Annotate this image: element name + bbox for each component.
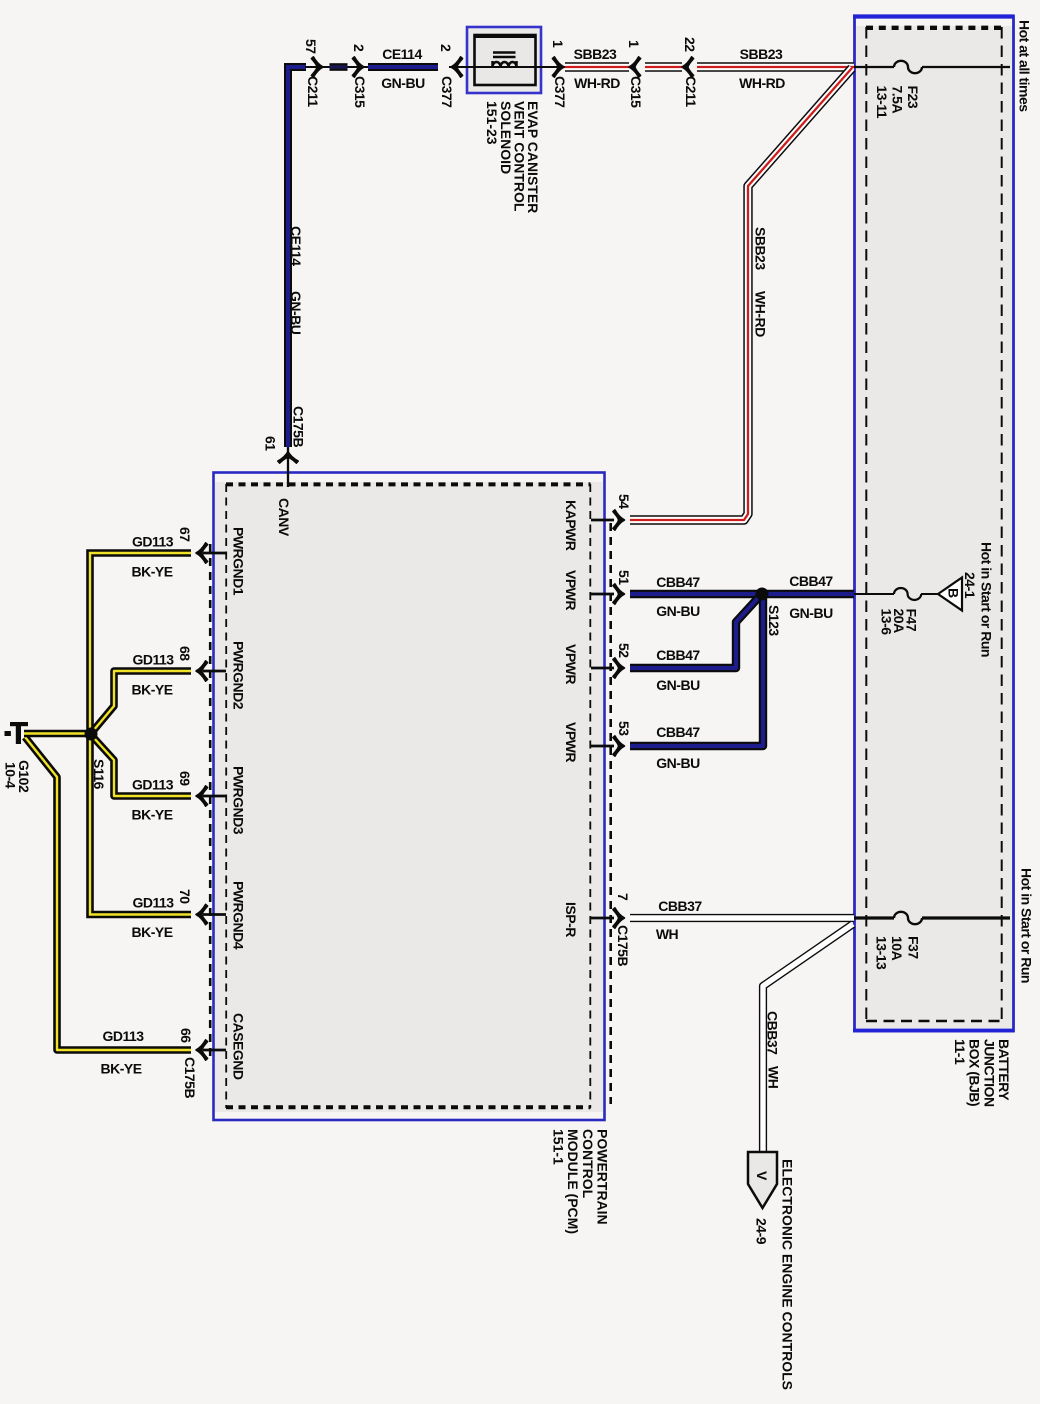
label VPWR / 52 <box>563 643 632 684</box>
svg-text:WH: WH <box>656 926 679 942</box>
PCM pin CANV 61: stub and arrow <box>278 447 298 487</box>
svg-text:MODULE (PCM): MODULE (PCM) <box>565 1129 581 1234</box>
svg-text:VPWR: VPWR <box>563 570 579 610</box>
svg-text:SBB23: SBB23 <box>753 227 769 270</box>
svg-text:C315: C315 <box>628 76 644 108</box>
svg-text:54: 54 <box>616 494 632 509</box>
label F47 20A 13-6 <box>879 609 920 636</box>
svg-text:10A: 10A <box>889 936 905 961</box>
svg-text:GD113: GD113 <box>132 534 174 550</box>
svg-text:2: 2 <box>438 44 454 52</box>
svg-text:C211: C211 <box>305 76 321 107</box>
svg-text:7: 7 <box>615 893 631 901</box>
svg-text:S116: S116 <box>91 759 107 790</box>
svg-text:SBB23: SBB23 <box>740 46 783 62</box>
label 24-9 <box>754 1218 770 1245</box>
label SBB23 WH-RD (first) <box>574 46 621 91</box>
svg-text:1: 1 <box>626 40 642 48</box>
svg-text:CBB37: CBB37 <box>658 898 702 914</box>
svg-text:CBB47: CBB47 <box>656 647 700 663</box>
fuse F47 20A symbol <box>894 588 921 600</box>
svg-text:GN-BU: GN-BU <box>789 605 833 621</box>
solenoid L1 coil symbol inside EVAP box <box>493 53 517 68</box>
svg-text:S123: S123 <box>766 605 782 636</box>
svg-text:F37: F37 <box>906 936 922 959</box>
label F23 7.5A 13-11 <box>874 86 921 119</box>
wire CBB47 GN-BU pin 52 to S123 <box>630 598 758 668</box>
svg-text:51: 51 <box>616 570 632 585</box>
svg-text:WH-RD: WH-RD <box>739 75 785 91</box>
off-page connector triangle B 24-1 <box>938 578 962 611</box>
off-page connector V 24-9 (ELECTRONIC ENGINE CONTROLS) <box>748 1152 777 1208</box>
svg-text:68: 68 <box>177 646 193 661</box>
svg-text:POWERTRAIN: POWERTRAIN <box>595 1129 611 1225</box>
svg-text:GD113: GD113 <box>132 777 174 793</box>
ground G102 symbol <box>5 722 29 744</box>
BJB internal feed line for fuse F23 <box>854 66 1010 68</box>
wire: dashed take-out segment on CE114 <box>305 64 372 70</box>
connector C175B dashed line (left, through PCM left pins) <box>209 544 212 1060</box>
svg-text:BK-YE: BK-YE <box>131 564 172 580</box>
svg-text:C315: C315 <box>352 76 368 108</box>
label 22 C211 <box>682 37 699 107</box>
wire GD113 BK-YE CASEGND pin 66 to G102 <box>25 737 191 1050</box>
svg-text:SBB23: SBB23 <box>574 46 617 62</box>
svg-text:C175B: C175B <box>291 406 307 447</box>
label POWERTRAIN CONTROL MODULE (PCM) 151-1 <box>550 1129 610 1234</box>
label PWRGND2 / 68 <box>177 641 247 710</box>
label 24-1 <box>962 572 978 599</box>
wire SBB23 WH-RD segment 2 (C315 to C211) <box>645 62 682 71</box>
svg-text:11-1: 11-1 <box>952 1039 968 1065</box>
BJB box (BATTERY JUNCTION BOX) <box>853 16 1014 1031</box>
label Hot in Start or Run (F47) <box>979 542 995 657</box>
svg-text:1: 1 <box>550 40 566 48</box>
label CANV <box>276 498 292 537</box>
svg-text:22: 22 <box>682 37 698 52</box>
splice S123 <box>756 588 769 601</box>
wire GD113 BK-YE pin 69 to S116 <box>93 737 191 796</box>
svg-text:CBB47: CBB47 <box>656 724 700 740</box>
svg-text:C377: C377 <box>439 76 455 108</box>
label VPWR / 53 <box>563 721 632 762</box>
connector C377 pin 1 arrow <box>552 57 564 77</box>
label PWRGND3 / 69 <box>177 766 247 835</box>
label S123 <box>766 605 782 636</box>
connector C211 pin 22 arrow <box>682 57 694 77</box>
svg-text:57: 57 <box>303 39 319 54</box>
label G102 10-4 <box>3 760 33 793</box>
svg-text:52: 52 <box>616 643 632 658</box>
svg-text:CE114: CE114 <box>288 226 304 266</box>
svg-text:GN-BU: GN-BU <box>656 755 700 771</box>
wire CBB47 GN-BU pin 51 to S123 to BJB <box>630 590 854 598</box>
wire GD113 BK-YE S116 to G102 <box>24 730 86 738</box>
wire CBB37 WH pin 7 to BJB <box>630 914 854 922</box>
splice S116 <box>85 728 98 741</box>
label SBB23 WH-RD (vertical wire) <box>753 227 769 337</box>
wire CBB37 WH branch to electronic engine controls <box>763 924 853 1151</box>
svg-text:GD113: GD113 <box>102 1028 144 1044</box>
svg-text:PWRGND3: PWRGND3 <box>231 766 247 835</box>
label ELECTRONIC ENGINE CONTROLS <box>780 1159 796 1390</box>
svg-text:PWRGND2: PWRGND2 <box>231 641 247 710</box>
label GD113 BK-YE (pin 68) <box>131 652 174 698</box>
svg-text:24-9: 24-9 <box>754 1218 770 1245</box>
connector C315 pin 1 arrow <box>629 57 641 77</box>
svg-text:CONTROL: CONTROL <box>580 1129 596 1199</box>
svg-text:CBB47: CBB47 <box>789 573 833 589</box>
svg-text:ELECTRONIC ENGINE CONTROLS: ELECTRONIC ENGINE CONTROLS <box>780 1159 796 1390</box>
wire SBB23 WH-RD segment 3 (C211 to BJB) <box>697 62 854 71</box>
svg-text:13-13: 13-13 <box>874 936 890 970</box>
svg-text:GN-BU: GN-BU <box>656 677 700 693</box>
svg-text:61: 61 <box>263 436 279 451</box>
svg-text:GN-BU: GN-BU <box>288 291 304 335</box>
label GD113 BK-YE (pin 69) <box>131 777 173 823</box>
wire SBB23 WH-RD segment 1 (C377 to C315) <box>565 62 629 71</box>
label Hot in Start or Run (F37) <box>1019 868 1035 983</box>
label GD113 BK-YE (pin 67) <box>131 534 173 580</box>
svg-text:53: 53 <box>616 721 632 736</box>
PCM right pins stubs + arrows (54,51,52,53,7) <box>591 510 625 530</box>
fuse F37 10A symbol <box>894 912 922 924</box>
svg-text:C377: C377 <box>552 76 568 108</box>
svg-text:WH: WH <box>766 1066 782 1089</box>
label C175B / 61 (CANV pin) <box>263 406 307 451</box>
wire GD113 BK-YE pins 67/70 shared vertical through S116 <box>90 553 191 915</box>
svg-text:ISP-R: ISP-R <box>563 902 579 937</box>
fuse F23 7.5A symbol <box>894 61 922 73</box>
wire GD113 BK-YE pin 68 to S116 <box>93 671 191 731</box>
label 1 C377 <box>550 40 568 108</box>
label F37 10A 13-13 <box>874 936 922 970</box>
svg-text:13-6: 13-6 <box>879 609 895 636</box>
svg-text:151-23: 151-23 <box>484 101 500 145</box>
svg-text:10-4: 10-4 <box>3 762 19 789</box>
wire CE114 GN-BU horizontal segment <box>368 63 438 71</box>
label PWRGND1 / 67 <box>177 527 247 596</box>
svg-text:WH-RD: WH-RD <box>753 291 769 337</box>
label GD113 BK-YE (pin 70) <box>131 895 174 941</box>
BJB internal feed line for fuse F47 <box>854 593 939 595</box>
label BATTERY JUNCTION BOX (BJB) 11-1 <box>952 1039 1012 1107</box>
svg-text:KAPWR: KAPWR <box>563 500 579 551</box>
label EVAP CANISTER VENT CONTROL SOLENOID 151-23 <box>484 101 541 213</box>
label CBB47 GN-BU (pin 53) <box>656 724 700 771</box>
label GD113 BK-YE (pin 66) <box>100 1028 144 1077</box>
svg-text:PWRGND1: PWRGND1 <box>231 527 247 596</box>
label CBB37 WH (horizontal) <box>656 898 703 942</box>
wire CE114 GN-BU: top-left corner + vertical run to CANV <box>288 67 306 447</box>
svg-text:C175B: C175B <box>182 1057 198 1098</box>
connector C377 pin 2 arrow <box>451 57 463 77</box>
wire CBB47 GN-BU pin 53 to S123 <box>630 598 763 746</box>
PCM U1 module box (POWERTRAIN CONTROL MODULE) <box>214 473 605 1121</box>
svg-text:7.5A: 7.5A <box>890 86 906 114</box>
label CBB37 WH (vertical wire) <box>765 1011 782 1089</box>
svg-text:GD113: GD113 <box>132 895 174 911</box>
svg-text:VPWR: VPWR <box>563 722 579 762</box>
label CBB47 GN-BU (pin 52) <box>656 647 700 693</box>
svg-text:151-1: 151-1 <box>550 1129 566 1165</box>
label CE114 GN-BU (horizontal wire) <box>381 46 425 91</box>
wire: thin lead through EVAP solenoid box <box>449 66 566 68</box>
svg-text:69: 69 <box>177 771 193 786</box>
label 1 C315 <box>626 40 644 108</box>
label PWRGND4 / 70 <box>177 881 247 950</box>
svg-text:Hot at all times: Hot at all times <box>1017 20 1033 112</box>
svg-text:C211: C211 <box>683 76 699 107</box>
wire: thin link arrow C377 to box <box>454 66 476 68</box>
label 2 C377 <box>438 44 455 108</box>
svg-text:BK-YE: BK-YE <box>100 1061 141 1077</box>
connector C175B dashed line (right, through PCM right pins) <box>609 523 612 1104</box>
label 57 C211 <box>303 39 321 107</box>
svg-text:2: 2 <box>351 44 367 52</box>
svg-text:67: 67 <box>177 527 193 542</box>
label CBB47 GN-BU (right of S123) <box>789 573 833 621</box>
label CASEGND / 66 / C175B <box>178 1013 247 1098</box>
svg-text:CBB37: CBB37 <box>765 1011 781 1055</box>
svg-text:Hot in Start or Run: Hot in Start or Run <box>979 542 995 657</box>
svg-text:CE114: CE114 <box>382 46 422 62</box>
BJB internal feed line for fuse F37 <box>854 916 1010 919</box>
svg-text:WH-RD: WH-RD <box>574 75 620 91</box>
svg-text:70: 70 <box>177 889 193 904</box>
svg-text:13-11: 13-11 <box>874 86 890 119</box>
label CE114 GN-BU (vertical wire) <box>288 226 304 335</box>
svg-text:GN-BU: GN-BU <box>381 75 425 91</box>
svg-text:BK-YE: BK-YE <box>131 807 172 823</box>
label SBB23 WH-RD (second) <box>739 46 785 91</box>
svg-text:V: V <box>754 1171 770 1181</box>
svg-text:CANV: CANV <box>276 498 292 537</box>
svg-text:BK-YE: BK-YE <box>131 682 172 698</box>
svg-text:66: 66 <box>178 1028 194 1043</box>
svg-text:24-1: 24-1 <box>962 572 978 599</box>
svg-text:VPWR: VPWR <box>563 644 579 684</box>
svg-text:CBB47: CBB47 <box>656 574 700 590</box>
EVAP solenoid component box <box>467 27 541 93</box>
svg-text:B: B <box>946 588 962 598</box>
label Hot at all times <box>1017 20 1033 112</box>
PCM left pins stubs + arrows (67,68,69,70,66) <box>196 543 226 563</box>
label KAPWR / 54 <box>563 494 632 551</box>
svg-text:PWRGND4: PWRGND4 <box>231 881 247 950</box>
svg-text:F23: F23 <box>905 86 921 109</box>
svg-text:JUNCTION: JUNCTION <box>982 1039 998 1107</box>
connector C315 pin 2 arrow <box>352 57 364 77</box>
connector C211 pin 57 arrow <box>311 57 323 77</box>
svg-text:GD113: GD113 <box>132 652 174 668</box>
label ISP-R / 7 / C175B <box>563 893 631 966</box>
label S116 <box>91 759 107 790</box>
svg-text:BK-YE: BK-YE <box>131 924 172 940</box>
label VPWR / 51 <box>563 570 632 610</box>
svg-text:CASEGND: CASEGND <box>231 1013 247 1080</box>
svg-text:GN-BU: GN-BU <box>656 603 700 619</box>
wire SBB23 WH-RD branch to PCM KAPWR pin 54 <box>630 68 852 520</box>
svg-text:C175B: C175B <box>615 925 631 966</box>
label 2 C315 <box>351 44 368 108</box>
svg-text:Hot in Start or Run: Hot in Start or Run <box>1019 868 1035 983</box>
label CBB47 GN-BU (pin 51 left of S123) <box>656 574 700 619</box>
